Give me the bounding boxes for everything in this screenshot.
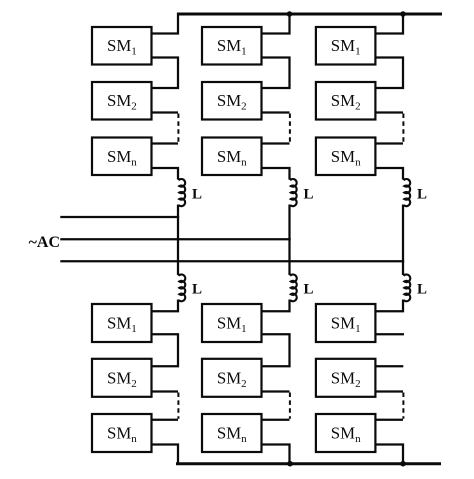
- wire: SM2 output stub upper arm leg B: [262, 111, 290, 113]
- inductor L lower arm leg A: [178, 274, 185, 301]
- wire: SM1 to SM2 upper arm leg C: [375, 58, 403, 89]
- submodule SM1 lower arm leg A: [92, 304, 152, 342]
- submodule SM2 upper arm leg C: [316, 82, 376, 120]
- inductor L lower arm leg C: [403, 274, 410, 301]
- wire: dashed continuation SM2 to SMn upper arm leg C: [402, 114, 404, 143]
- wire: AC phase A line: [60, 216, 179, 218]
- junction node: bottom bus / leg C: [400, 461, 406, 467]
- svg-text:L: L: [304, 187, 314, 203]
- svg-text:L: L: [417, 282, 427, 298]
- wire: lower inductor to SM1 lower arm leg B: [262, 300, 290, 312]
- wire: phase node vertical leg A: [177, 205, 179, 276]
- wire: SM1 to SM2 upper arm leg B: [262, 58, 290, 89]
- submodule SM2 lower arm leg C: [316, 359, 376, 397]
- svg-text:L: L: [417, 187, 427, 203]
- submodule SM1 lower arm leg C: [316, 304, 376, 342]
- wire: dashed continuation SM2 to SMn lower arm leg A: [177, 393, 179, 419]
- submodule SMn lower arm leg C: [316, 414, 376, 452]
- wire: top bus to SM1 upper arm leg A: [152, 13, 179, 34]
- wire: lower inductor to SM1 lower arm leg C: [375, 300, 403, 312]
- wire: SMn to upper inductor leg A: [152, 168, 179, 180]
- wire: SM1 output stub lower arm leg C: [375, 333, 404, 335]
- submodule SMn upper arm leg A: [92, 138, 152, 176]
- wire: SMn to upper inductor leg B: [262, 168, 290, 180]
- wire: SM2 output stub upper arm leg C: [375, 111, 403, 113]
- submodule SM2 upper arm leg B: [202, 82, 262, 120]
- submodule SM2 lower arm leg A: [92, 359, 152, 397]
- wire: AC phase C line: [60, 260, 404, 262]
- wire: lower inductor to SM1 lower arm leg A: [152, 300, 179, 312]
- wire: SM2 input stub lower arm leg C: [375, 365, 403, 367]
- wire: AC phase B line: [60, 238, 290, 240]
- wire: SM1 to SM2 upper arm leg A: [152, 58, 179, 89]
- wire: SMn to upper inductor leg C: [375, 168, 403, 180]
- top DC bus: [177, 13, 442, 16]
- inductor L upper arm leg B: [290, 178, 297, 206]
- wire: dashed continuation SM2 to SMn upper arm leg B: [289, 114, 291, 143]
- junction node: top bus / leg B: [287, 11, 293, 17]
- submodule SM1 upper arm leg A: [92, 27, 152, 65]
- wire: SMn input stub upper arm leg B: [262, 142, 290, 144]
- wire: SMn input stub upper arm leg C: [375, 142, 403, 144]
- wire: top bus to SM1 upper arm leg C: [375, 13, 403, 34]
- bottom DC bus: [176, 462, 441, 465]
- submodule SM2 lower arm leg B: [202, 359, 262, 397]
- submodule SMn upper arm leg C: [316, 138, 376, 176]
- wire: SMn to bottom bus leg B: [262, 445, 290, 464]
- svg-text:L: L: [192, 187, 202, 203]
- wire: SM2 output stub lower arm leg A: [152, 390, 179, 392]
- inductor L upper arm leg A: [178, 178, 185, 206]
- wire: SMn input stub lower arm leg A: [152, 419, 179, 421]
- inductor L lower arm leg B: [290, 274, 297, 301]
- wire: dashed continuation SM2 to SMn lower arm leg C: [402, 393, 404, 419]
- svg-text:L: L: [192, 282, 202, 298]
- wire: SMn input stub lower arm leg B: [262, 419, 290, 421]
- wire: SMn input stub upper arm leg A: [152, 142, 179, 144]
- wire: dashed continuation SM2 to SMn upper arm leg A: [177, 114, 179, 143]
- submodule SMn lower arm leg B: [202, 414, 262, 452]
- wire: SM1 to SM2 lower arm leg B: [262, 334, 290, 366]
- wire: SM2 output stub lower arm leg B: [262, 390, 290, 392]
- wire: dashed continuation SM2 to SMn lower arm leg B: [289, 393, 291, 419]
- wire: SM2 output stub upper arm leg A: [152, 111, 179, 113]
- wire: phase node vertical leg B: [288, 205, 290, 276]
- wire: top bus to SM1 upper arm leg B: [262, 13, 290, 34]
- submodule SMn upper arm leg B: [202, 138, 262, 176]
- wire: SMn to bottom bus leg C: [375, 445, 403, 464]
- inductor L upper arm leg C: [403, 178, 410, 206]
- junction node: bottom bus / leg B: [287, 461, 293, 467]
- wire: SMn input stub lower arm leg C: [375, 419, 403, 421]
- submodule SM2 upper arm leg A: [92, 82, 152, 120]
- wire: SMn to bottom bus leg A: [152, 445, 179, 464]
- submodule SM1 upper arm leg B: [202, 27, 262, 65]
- wire: phase node vertical leg C: [402, 205, 404, 276]
- wire: SM2 output stub lower arm leg C: [375, 390, 403, 392]
- submodule SM1 lower arm leg B: [202, 304, 262, 342]
- svg-text:L: L: [304, 282, 314, 298]
- svg-text:~AC: ~AC: [29, 234, 60, 251]
- wire: SM1 to SM2 lower arm leg A: [152, 334, 179, 366]
- submodule SMn lower arm leg A: [92, 414, 152, 452]
- junction node: top bus / leg C: [400, 11, 406, 17]
- submodule SM1 upper arm leg C: [316, 27, 376, 65]
